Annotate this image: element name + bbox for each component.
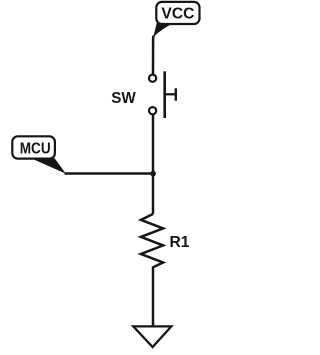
svg-text:MCU: MCU bbox=[20, 141, 51, 158]
svg-text:VCC: VCC bbox=[161, 6, 194, 23]
svg-text:SW: SW bbox=[111, 90, 136, 107]
svg-text:R1: R1 bbox=[170, 234, 190, 251]
